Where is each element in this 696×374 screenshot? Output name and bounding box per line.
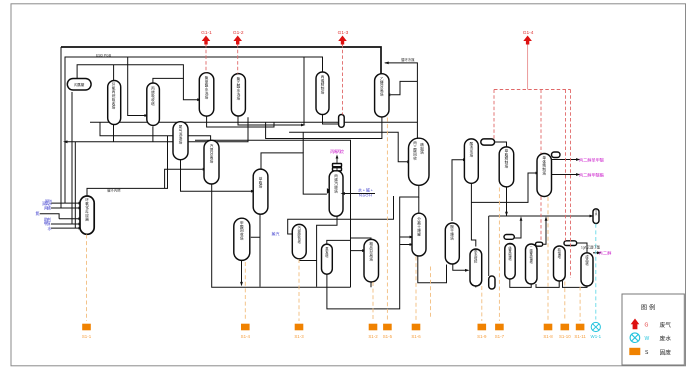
wire V11 bottom to V16 (317, 216, 337, 287)
wire V13 bottom arrow to line (241, 260, 243, 284)
svg-text:聚乙醛水洗塔: 聚乙醛水洗塔 (237, 76, 241, 100)
wire V8 bottom to band (323, 115, 339, 125)
wire V24 product arrow 1 (552, 159, 577, 161)
svg-text:废水: 废水 (660, 335, 672, 343)
svg-text:G1-3: G1-3 (338, 30, 349, 36)
svg-text:水: 水 (48, 225, 52, 231)
svg-text:闪蒸罐: 闪蒸罐 (74, 82, 85, 87)
net S1-11 drop (579, 287, 581, 322)
svg-text:酸洗水塔: 酸洗水塔 (470, 141, 474, 158)
wire V19 top riser arrow into V22 (452, 160, 463, 221)
wire recycle band long (90, 121, 417, 123)
svg-text:丙烯吸收塔: 丙烯吸收塔 (151, 86, 155, 106)
wire feed arrow into V7 left (165, 169, 203, 188)
marker S1-8 square (544, 324, 553, 331)
solid-waste orange dashed drops (87, 118, 581, 322)
wire V10 bottom to band (266, 117, 382, 139)
svg-text:环氧丙烷吸收塔: 环氧丙烷吸收塔 (112, 83, 116, 110)
vessel V24 top condenser pot (552, 152, 561, 158)
svg-text:丙烯丙烷: 丙烯丙烷 (330, 148, 345, 155)
waste-gas red dashed stacks (206, 44, 571, 278)
marker S1-4 square (241, 324, 250, 331)
net G1-4 dashed header (494, 90, 571, 279)
wire feed into V20 (327, 238, 371, 251)
net W1-1 cyan drop (595, 224, 597, 320)
marker S1-7 square (495, 324, 504, 331)
wire V26 bottom stub (475, 286, 477, 288)
vessel V30 rectifier (554, 246, 566, 281)
vessel V32 waste water pot (593, 209, 599, 224)
vessel V15 decolorizing stripper (292, 224, 306, 258)
svg-text:S1-7: S1-7 (495, 334, 505, 339)
marker S1-1 square (82, 324, 91, 331)
wire feeds into V18 left (400, 237, 410, 245)
svg-text:丙二醇单甲醚: 丙二醇单甲醚 (579, 156, 605, 163)
wire band riser into V17 left (289, 132, 407, 162)
wire left frame vertical (60, 47, 62, 208)
wire branch into V10 right (390, 81, 417, 94)
wire V29 to V30 U-tube (536, 281, 559, 287)
wire drop from band into V12 feed node (302, 132, 304, 153)
svg-text:环氧化反应器: 环氧化反应器 (85, 198, 89, 221)
vessel V31 product column (581, 253, 593, 286)
wire V17 bottom to V18 top (418, 197, 420, 214)
vessel V27 small pot (489, 276, 495, 289)
vessel V4 scrubber (173, 122, 188, 160)
wire long waste water header arrow to V32 (489, 215, 592, 217)
svg-text:丙烯精制塔: 丙烯精制塔 (321, 74, 325, 94)
wire V15 bottom to junction (299, 259, 316, 261)
svg-text:图例: 图例 (641, 304, 657, 312)
wire inner recycle top line (65, 57, 323, 203)
wire steam arrow into V15 (288, 196, 394, 234)
net G1-2 dashed riser (237, 44, 239, 74)
wire V4 bottom to extractor V12 (181, 160, 251, 192)
net S1-9 drop (481, 286, 483, 321)
svg-text:分离干燥罐: 分离干燥罐 (417, 216, 421, 236)
wire V3 bottom recycle to reactor feed (152, 127, 154, 142)
svg-text:丙三醇回收: 丙三醇回收 (413, 140, 417, 160)
marker S1-3 square (295, 324, 304, 331)
svg-text:废气: 废气 (660, 321, 672, 329)
wire V2 bottom descender (113, 125, 115, 142)
wire header down to V27 (488, 216, 490, 276)
wire V3 feed from inner frame (128, 57, 145, 116)
wire reactor feed arrows from reagent labels (40, 203, 79, 228)
wire reactor outlet riser to stripper V7 (87, 136, 168, 196)
net S1-8 drop (547, 197, 549, 321)
vessel V14 epoxidation reactor (80, 196, 94, 234)
marker S1-9 square (478, 324, 487, 331)
wire V1 bottom to reactor feed (71, 92, 73, 224)
wire V23 bottom to sewer line (506, 187, 508, 216)
wire V12 bottom to V13 (251, 214, 260, 287)
svg-text:尾气洗涤塔: 尾气洗涤塔 (179, 125, 183, 144)
net S1-6 drop (415, 257, 417, 322)
wire V22 bottom to V24 feed (471, 173, 535, 202)
wire V1 top to V3 top (stepped) (77, 65, 183, 83)
svg-text:W1-1: W1-1 (591, 334, 602, 339)
svg-text:S1-11: S1-11 (574, 334, 586, 339)
net S1-1 drop (86, 235, 88, 322)
svg-text:1g/L乙酸丁酯: 1g/L乙酸丁酯 (581, 244, 601, 249)
net S1-5 drop (386, 118, 388, 322)
marker S1-2 square (369, 324, 378, 331)
wire V6 recycle to reactor feed (67, 117, 248, 142)
svg-text:丙烯汽提塔: 丙烯汽提塔 (334, 173, 338, 193)
vessel V1 flash drum (67, 79, 91, 91)
svg-text:丙二醇甲醚酯: 丙二醇甲醚酯 (579, 171, 604, 178)
wire V5 feed from stepped elbow (183, 78, 197, 99)
svg-text:S1-9: S1-9 (477, 334, 487, 339)
svg-text:氮: 氮 (36, 210, 40, 216)
wire main top frame line (61, 47, 381, 74)
net V19 drop (430, 267, 432, 319)
net S1-2 drop (372, 282, 374, 321)
net G1-4 solid riser (527, 44, 529, 90)
marker S1-5 square (383, 324, 392, 331)
wire V22 cap to V23 top (495, 142, 507, 147)
svg-text:S1-10: S1-10 (559, 334, 571, 339)
vessel V12 extractor (253, 169, 268, 214)
svg-text:甲醇回收塔: 甲醇回收塔 (240, 220, 244, 240)
svg-text:固废: 固废 (660, 348, 672, 356)
net S1-3 drop (298, 259, 300, 321)
arrowheads (144, 114, 149, 117)
marker S1-10 square (561, 324, 570, 331)
wire V30 cap to V31 top (577, 243, 587, 253)
legend waste gas icon (631, 319, 640, 330)
wire recycle loop V17 to V16 (327, 185, 419, 309)
svg-text:聚甲醇水洗塔: 聚甲醇水洗塔 (205, 75, 209, 99)
wire V29 condenser riser arrow up into header (543, 218, 546, 244)
marker S1-11 square (576, 324, 585, 331)
marker S1-6 square (412, 324, 421, 331)
wire V28 condenser riser arrow up into header (514, 218, 521, 238)
wire V22 bottom to V26 (471, 183, 475, 246)
marker G1-2 arrow (233, 36, 242, 45)
wire V28 to V29 U-tube (510, 279, 531, 287)
marker W1-1 circle (591, 322, 600, 331)
valve stack above V11 (333, 164, 342, 167)
vessel V29 top condenser (536, 242, 543, 246)
wire V2 top riser tee (113, 65, 115, 81)
wire V24 product arrow 2 (552, 174, 577, 176)
vessel V22 top condenser pot (481, 139, 495, 145)
vessel V28 distillation column 1 (505, 244, 515, 280)
net S1-7 drop (498, 188, 500, 322)
marker G1-1 arrow (202, 36, 211, 45)
vessel V11 propylene stripper (329, 171, 343, 217)
legend solid waste icon (629, 348, 640, 355)
svg-text:ESD PGB: ESD PGB (96, 53, 112, 57)
wire V30 to V31 U-tube (563, 281, 588, 287)
wire caustic arrow into V11 (345, 193, 376, 195)
vessel V5 wash column (under G1-1) (199, 73, 214, 116)
svg-text:S1-4: S1-4 (241, 334, 251, 339)
svg-text:醚干燥塔: 醚干燥塔 (450, 224, 454, 241)
vessel V17 glycol recovery column (409, 138, 430, 185)
vessel V8 propylene column (316, 72, 329, 115)
legend waste water icon (630, 333, 640, 343)
net S1-4 drop (244, 262, 246, 321)
svg-text:萃取精制塔: 萃取精制塔 (505, 148, 509, 168)
svg-text:丙二醇: 丙二醇 (599, 250, 612, 257)
wire V31 product arrow (593, 252, 598, 254)
svg-text:粗品分离塔: 粗品分离塔 (369, 241, 373, 261)
vessel V29 distillation column 2 (526, 244, 538, 284)
svg-text:S1-5: S1-5 (383, 334, 393, 339)
vessel V30 top condenser (564, 241, 577, 246)
vessel V3 absorber 2 (147, 83, 160, 126)
svg-text:萃取塔: 萃取塔 (259, 176, 263, 189)
svg-text:G: G (645, 323, 649, 329)
vessel V19 ether drying column (445, 223, 459, 264)
vessel V23 refining extractor (499, 147, 514, 187)
wire V5 bottom link (207, 116, 274, 127)
svg-text:G1-4: G1-4 (523, 30, 534, 36)
svg-text:S1-1: S1-1 (82, 334, 92, 339)
svg-text:G1-1: G1-1 (201, 30, 212, 36)
wire left horizontal into riser (100, 122, 211, 140)
svg-text:污水: 污水 (595, 209, 598, 216)
wire middle vertical trunk (195, 140, 351, 287)
vessel V7 stripper (204, 140, 219, 184)
wire V6 bottom arrowed link (238, 57, 304, 125)
svg-text:G1-2: G1-2 (233, 30, 244, 36)
wire V12 top riser to V11 feed (261, 153, 327, 194)
net G1-1 dashed riser (205, 44, 207, 73)
svg-text:S1-3: S1-3 (294, 334, 304, 339)
wire cooling media line (385, 63, 418, 138)
svg-text:S1-2: S1-2 (368, 334, 378, 339)
wire vent arrow up from V11 (336, 158, 338, 164)
vessel V16 evaporator (322, 244, 333, 274)
vessel V18 separator drum (412, 213, 426, 256)
svg-text:循环冷媒: 循环冷媒 (401, 57, 415, 62)
svg-text:蒸汽: 蒸汽 (272, 231, 280, 237)
marker G1-3 arrow (338, 36, 347, 45)
wire V20 bottom (370, 282, 372, 287)
legend box (622, 294, 684, 365)
vessel V22 acid wash column (464, 139, 478, 183)
vessel V24 monomer refining column (537, 154, 552, 197)
vessel V13 methanol recovery column (234, 218, 250, 260)
wire fourth reactor feed (74, 142, 76, 228)
svg-text:单体精制塔: 单体精制塔 (542, 155, 546, 175)
svg-text:丙烯: 丙烯 (44, 205, 51, 211)
net G1-3 dashed riser (342, 44, 344, 115)
svg-text:乙醛分离塔: 乙醛分离塔 (380, 76, 384, 96)
wire V7 bottom long horizontal (212, 184, 351, 287)
vessel V28 top condenser (504, 235, 514, 240)
vessel V6 wash column (under G1-2) (231, 74, 245, 116)
wire V18 bottom U-tube to V19 (418, 256, 447, 283)
wire V19 bottom arrow to V26 (453, 264, 466, 270)
svg-text:S1-8: S1-8 (543, 334, 553, 339)
vessel V26 dehydration column (470, 249, 482, 286)
vessel V20 crude splitter (364, 239, 379, 282)
vessel V10 separation column (375, 74, 389, 117)
svg-text:S1-6: S1-6 (411, 334, 421, 339)
net S1-10 drop (564, 282, 566, 322)
vessel V9 small knockout pot (under G1-3) (339, 115, 345, 128)
svg-text:W: W (645, 336, 650, 342)
svg-text:汽提分离塔: 汽提分离塔 (210, 143, 214, 163)
svg-text:精制塔: 精制塔 (420, 142, 424, 155)
vessel V2 absorber (108, 81, 121, 125)
svg-text:循环丙烯: 循环丙烯 (107, 188, 121, 193)
marker G1-4 arrow (523, 36, 532, 45)
